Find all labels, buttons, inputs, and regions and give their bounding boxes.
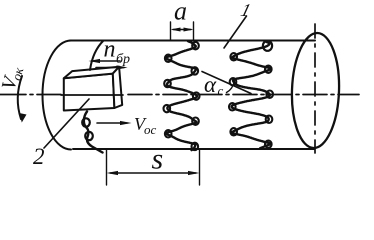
svg-text:ос: ос [144, 122, 157, 137]
svg-text:с: с [218, 83, 224, 98]
svg-text:s: s [152, 143, 164, 176]
svg-text:ок: ок [9, 65, 27, 82]
svg-text:2: 2 [33, 144, 45, 169]
svg-text:n: n [104, 37, 116, 63]
svg-text:1: 1 [239, 0, 253, 20]
svg-text:a: a [174, 0, 187, 26]
svg-text:α: α [204, 72, 217, 97]
svg-text:бр: бр [116, 52, 130, 67]
